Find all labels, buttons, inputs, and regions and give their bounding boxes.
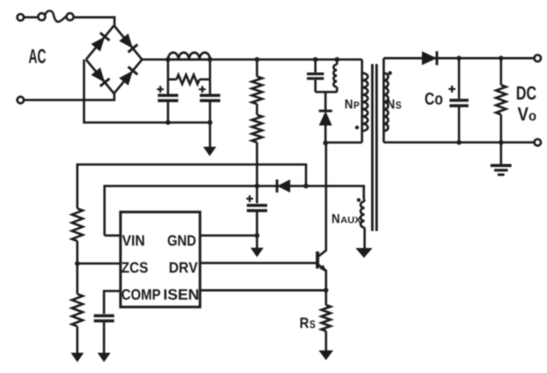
startup resistor R4 (lower): [252, 104, 262, 186]
sense resistor Rs: [321, 290, 330, 351]
transformer auxiliary Naux: [361, 199, 365, 249]
fuse F1: [38, 11, 73, 22]
capacitor C1 (bulk): [157, 79, 178, 122]
resistor R1 (divider upper): [72, 209, 83, 264]
node: EMI left junction: [166, 57, 171, 125]
DC output terminal (-): [534, 139, 541, 146]
node: ZCS divider tap: [75, 261, 80, 266]
wire: fuse to bridge top: [74, 17, 115, 26]
capacitor C4 (COMP): [94, 316, 114, 354]
wire: secondary bottom rail: [384, 141, 535, 143]
EMI filter inductor L1: [168, 53, 210, 60]
wire: clamp bottom join: [315, 92, 337, 110]
wire: neutral terminal to bridge bottom: [24, 93, 115, 101]
node: load bottom: [499, 140, 504, 145]
transformer secondary Ns: [384, 58, 388, 142]
node: Co top: [457, 56, 462, 61]
capacitor C5 (clamp): [307, 60, 324, 93]
wire: ZCS sense loop: [77, 165, 306, 209]
AC input terminal (line): [17, 14, 24, 21]
node: primary bottom / drain: [323, 141, 328, 146]
label Np: [345, 100, 359, 109]
resistor R5 (divider lower): [72, 264, 83, 354]
node: EMI right junction: [208, 57, 213, 125]
ground (EMI filter): [204, 147, 215, 155]
diode D3 (clamp, pointing up): [319, 111, 332, 125]
wire: top rail (bridge + to transformer primary): [142, 58, 362, 60]
wire: VIN pin: [105, 234, 121, 236]
wire: DRV pin to transistor base: [200, 262, 316, 264]
wire: ZCS pin: [77, 262, 120, 264]
capacitor Co: [449, 58, 469, 142]
earth ground (output): [491, 142, 512, 174]
wire: drain node down to collector: [325, 143, 327, 251]
label Rs: [300, 318, 315, 328]
ground (VCC cap): [251, 248, 262, 256]
node: load top: [499, 56, 504, 61]
op-amp/controller IC U1: [121, 212, 201, 307]
clamp coil L2: [334, 60, 337, 93]
wire: bottom rail: [84, 121, 210, 123]
transistor Q1 (switch): [318, 250, 327, 290]
label Ns: [387, 100, 401, 109]
node: GND pin to C3: [255, 233, 260, 238]
wire: VCC rail (Naux to VIN): [105, 186, 364, 236]
startup resistor R3 (upper): [252, 60, 262, 105]
wire: ISEN pin to sense node: [200, 289, 326, 291]
ground (COMP cap): [98, 353, 109, 361]
node: Co bottom: [457, 140, 462, 145]
node: snubber coil tap: [335, 57, 340, 62]
AC label: [29, 49, 46, 63]
label DC Vo: [517, 86, 536, 120]
transformer primary Np: [362, 60, 368, 143]
node: Np phase dot: [355, 126, 359, 130]
AC input terminal (neutral): [17, 97, 24, 104]
EMI damping resistor R2a: [168, 60, 210, 85]
label Naux: [332, 214, 361, 223]
wire: secondary top rail: [384, 57, 535, 59]
capacitor C3 (VCC): [246, 186, 267, 248]
ground (Rs): [320, 351, 333, 359]
load resistor RL: [496, 58, 506, 142]
wire: clamp diode to drain node: [324, 125, 326, 144]
capacitor C2 (bulk): [199, 79, 220, 147]
node: wire1 joins Naux wire: [304, 184, 309, 189]
diode D2 (VCC rectifier, pointing left): [277, 180, 290, 193]
diode D4 (output rectifier): [422, 51, 437, 65]
node: Naux phase dot: [357, 198, 361, 202]
label Co: [425, 93, 442, 105]
wire: COMP pin: [104, 291, 121, 314]
node: snubber cap tap: [313, 57, 318, 62]
node: startup resistor top: [255, 57, 260, 62]
wire: GND pin: [200, 234, 257, 236]
bridge rectifier BR1: [86, 26, 142, 94]
wire: bridge left corner down to bottom rail: [83, 60, 85, 124]
DC output terminal (+): [534, 55, 541, 62]
wire: terminal to fuse: [24, 16, 38, 18]
node: Ns phase dot: [388, 71, 392, 75]
transformer core: [372, 64, 376, 231]
ground (divider): [72, 353, 83, 361]
node: VCC cap junction: [255, 184, 260, 189]
node: emitter / ISEN junction: [324, 288, 329, 293]
ground (Naux): [357, 249, 372, 258]
wire: Np bottom to drain node: [326, 141, 363, 143]
